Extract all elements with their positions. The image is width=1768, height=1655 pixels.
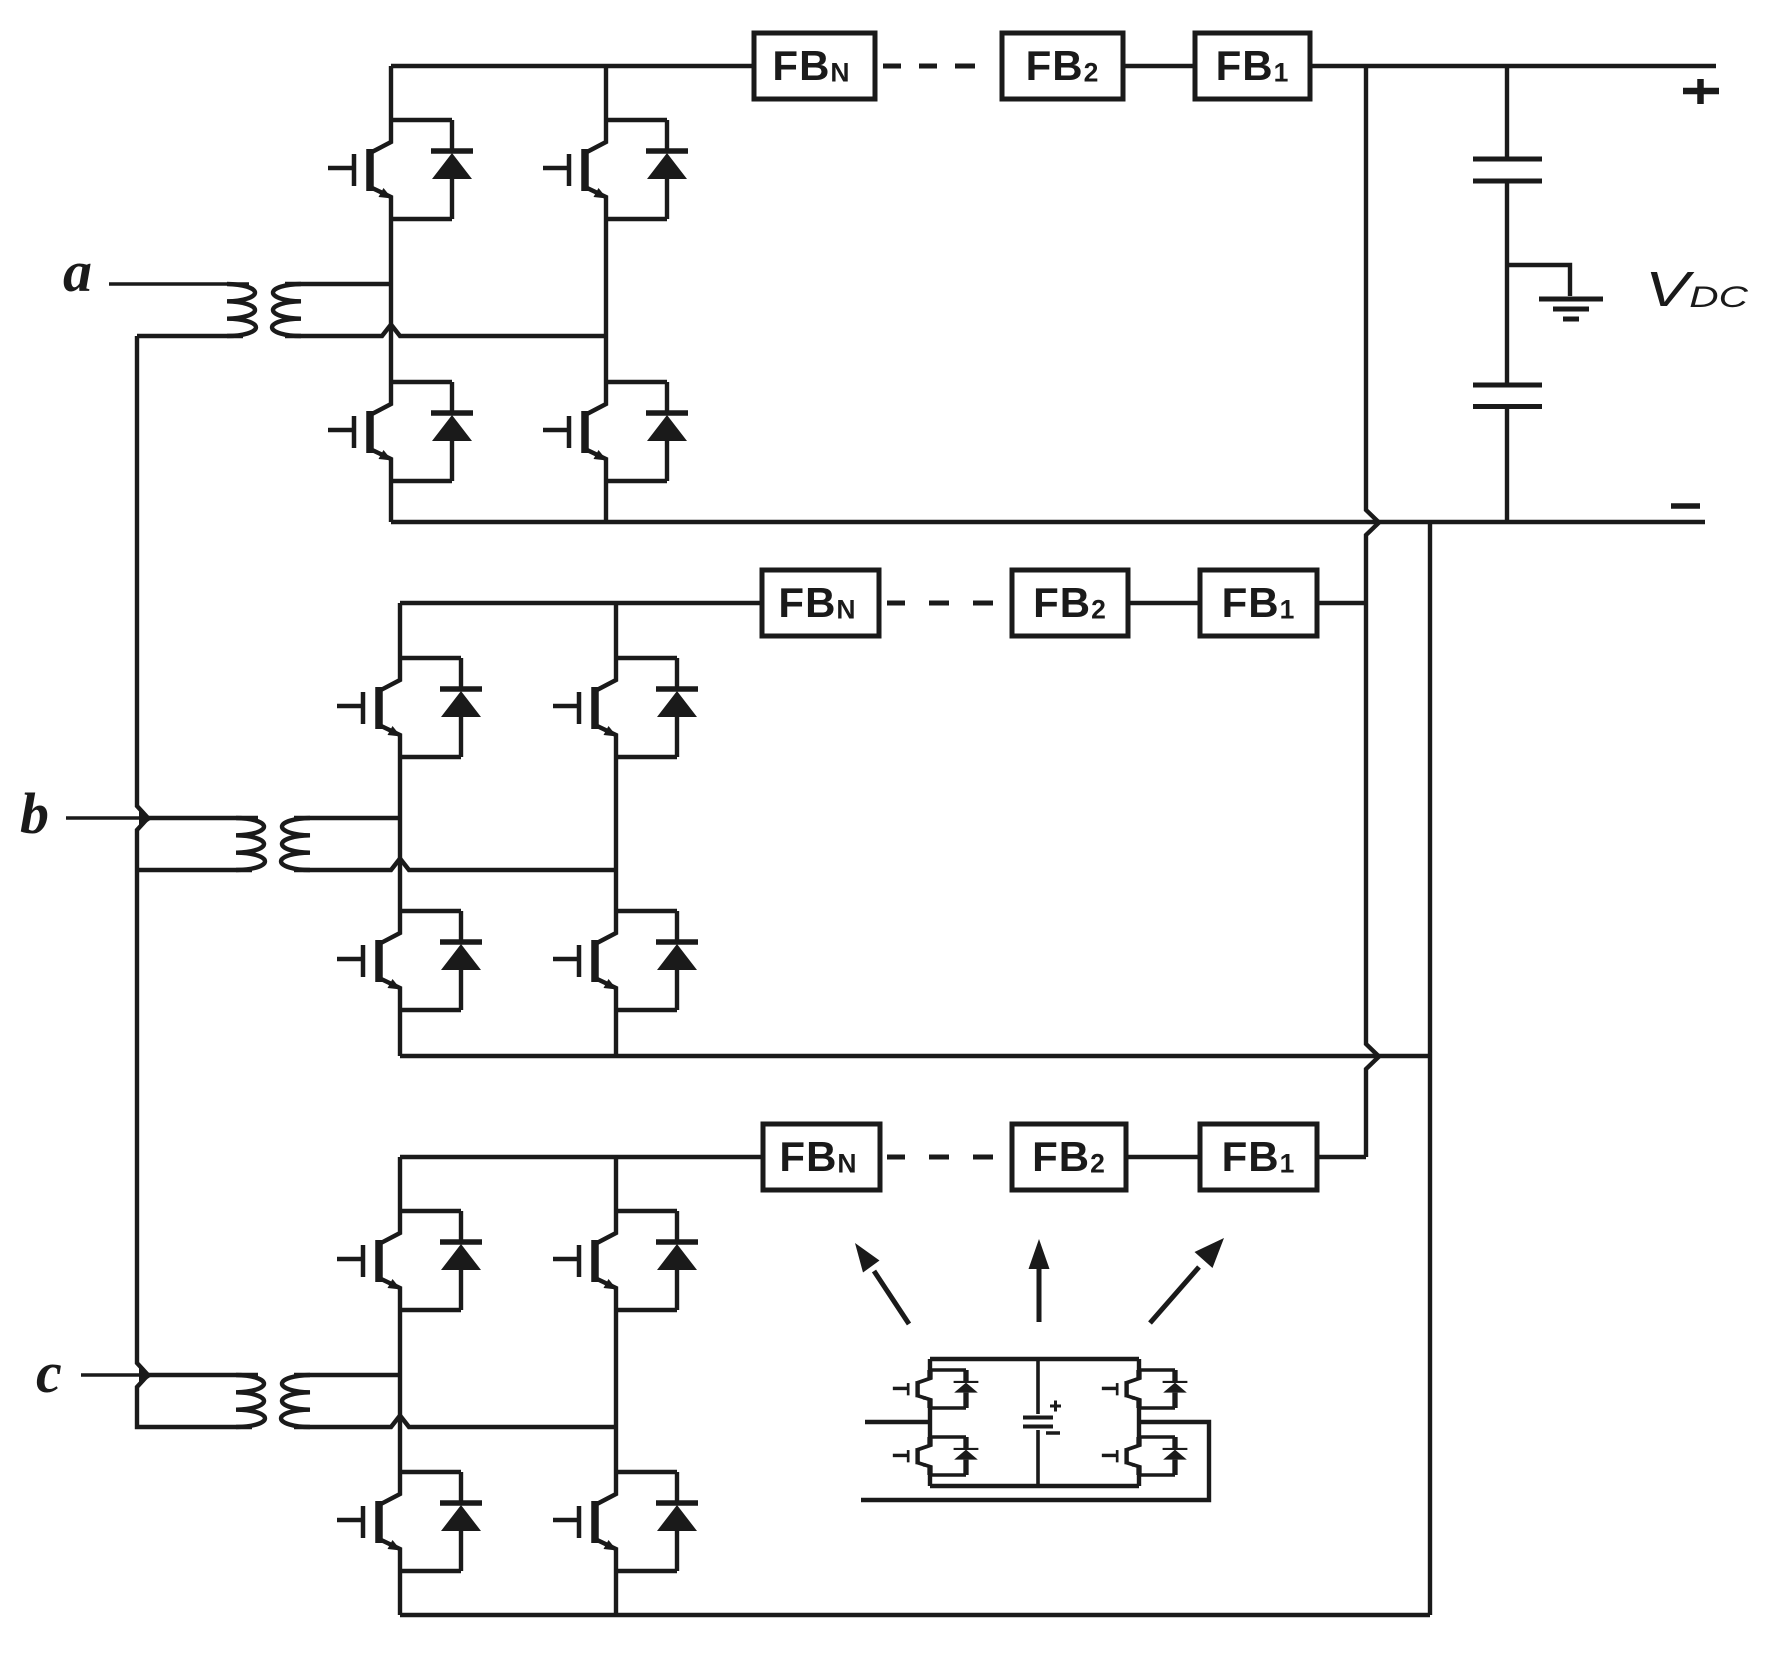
example cell AC terminal left (865, 1420, 930, 1424)
example FB cell bottom rail (930, 1484, 1139, 1488)
transformer Ta primary winding (phase a) (227, 284, 256, 336)
phase c H-bridge top rail (400, 1155, 763, 1159)
string bus vertical (FB1 returns) with hop jogs over negative bus and phase b rail (1366, 66, 1379, 1157)
svg-text:a: a (63, 239, 92, 304)
capacitor C2 (lower DC-link) (1473, 383, 1542, 388)
full-bridge cell block FB1 (phase c) (1200, 1124, 1317, 1190)
transformer Tc secondary winding (phase c) (281, 1375, 310, 1427)
wire Tb primary bottom to neutral bus (137, 868, 252, 872)
phase c H-bridge right leg (614, 1157, 618, 1615)
svg-text:FB1: FB1 (1222, 1133, 1296, 1180)
IGBT S4b with anti-parallel diode (lower-right, phase b) (553, 911, 698, 1010)
wire capacitor C2 to negative bus (1505, 409, 1509, 522)
IGBT S4a with anti-parallel diode (lower-right, phase a) (543, 382, 688, 481)
full-bridge cell block FB2 (phase c) (1012, 1124, 1126, 1190)
example cell capacitor polarity + mark (1050, 1401, 1061, 1412)
wire FB2 to FB1 (phase c) (1126, 1155, 1200, 1159)
svg-text:VDC: VDC (1645, 263, 1748, 317)
transformer Tc primary winding (phase c) (236, 1375, 265, 1427)
example cell capacitor lower plate tick (1046, 1431, 1060, 1435)
full-bridge cell block FB2 (phase b) (1012, 570, 1128, 636)
wire DC midpoint to ground (1507, 265, 1570, 296)
phase b H-bridge bottom rail (400, 1054, 1430, 1058)
IGBT S4c with anti-parallel diode (lower-right, phase c) (553, 1472, 698, 1571)
example cell IGBT Q3 with diode (lower-left) (893, 1437, 979, 1475)
transformer Tb primary winding (phase b) (236, 818, 265, 870)
wire Tb secondary top to phase b H-bridge left leg midpoint (294, 816, 400, 821)
phase c H-bridge left leg (398, 1157, 402, 1615)
example FB cell right leg (1137, 1359, 1141, 1486)
example FB cell top rail (930, 1357, 1139, 1361)
phase a H-bridge left leg (389, 66, 393, 522)
IGBT S1c with anti-parallel diode (upper-left, phase c) (337, 1211, 482, 1310)
return bus vertical (phase b and c bottom rails to negative bus) (1428, 522, 1432, 1615)
wire Ta secondary bottom to right leg midpoint (hop over left leg) (285, 325, 606, 337)
IGBT S2a with anti-parallel diode (upper-right, phase a) (543, 120, 688, 219)
svg-text:FBN: FBN (778, 579, 856, 626)
wire Ta secondary top to phase a H-bridge left leg midpoint (285, 282, 391, 287)
arrow from example cell to FBN (phase c) (874, 1271, 909, 1324)
full-bridge cell block FBN (phase b) (762, 570, 879, 636)
svg-text:FBN: FBN (779, 1133, 857, 1180)
wire FB1 (phase b) to string bus (1317, 601, 1366, 605)
dashed continuation between FBN and FB2 (phase a) (883, 64, 975, 69)
example FB cell left leg (928, 1359, 932, 1486)
wire FB2 to FB1 (phase b) (1128, 601, 1200, 605)
dashed continuation between FBN and FB2 (phase b) (887, 601, 993, 606)
example cell IGBT Q2 with diode (upper-right) (1102, 1370, 1188, 1408)
example cell IGBT Q4 with diode (lower-right) (1102, 1437, 1188, 1475)
IGBT S1b with anti-parallel diode (upper-left, phase b) (337, 658, 482, 757)
example cell DC-link capacitor wire top (1036, 1359, 1040, 1414)
svg-text:FB2: FB2 (1026, 42, 1100, 89)
IGBT S3c with anti-parallel diode (lower-left, phase c) (337, 1472, 482, 1571)
transformer Tb secondary winding (phase b) (281, 818, 310, 870)
IGBT S2c with anti-parallel diode (upper-right, phase c) (553, 1211, 698, 1310)
svg-text:FBN: FBN (772, 42, 850, 89)
svg-text:b: b (20, 781, 49, 846)
negative terminal − (1671, 503, 1700, 509)
full-bridge cell block FB1 (phase b) (1200, 570, 1317, 636)
wire FB2 to FB1 (phase a) (1123, 64, 1195, 68)
phase a H-bridge bottom rail / negative DC bus (391, 520, 1705, 524)
positive DC bus (FB1a to + terminal) (1310, 64, 1716, 68)
positive terminal + (1683, 88, 1719, 95)
svg-text:FB1: FB1 (1216, 42, 1290, 89)
wire Tc secondary bottom to right leg midpoint (hop over left leg) (294, 1416, 616, 1428)
full-bridge cell block FBN (phase c) (763, 1124, 880, 1190)
transformer Ta secondary winding (phase a) (272, 284, 301, 336)
dashed continuation between FBN and FB2 (phase c) (887, 1155, 993, 1160)
capacitor C1 (upper DC-link) (1473, 157, 1542, 162)
IGBT S2b with anti-parallel diode (upper-right, phase b) (553, 658, 698, 757)
neutral bus (left vertical) with hop jogs at b and c crossings (137, 336, 252, 1427)
IGBT S1a with anti-parallel diode (upper-left, phase a) (328, 120, 473, 219)
ground symbol (1539, 297, 1603, 302)
svg-text:FB2: FB2 (1032, 1133, 1106, 1180)
wire Tc secondary top to phase c H-bridge left leg midpoint (294, 1373, 400, 1378)
full-bridge cell block FB2 (phase a) (1002, 33, 1123, 99)
IGBT S3a with anti-parallel diode (lower-left, phase a) (328, 382, 473, 481)
IGBT S3b with anti-parallel diode (lower-left, phase b) (337, 911, 482, 1010)
phase a H-bridge top rail (391, 64, 754, 68)
full-bridge cell block FB1 (phase a) (1195, 33, 1310, 99)
example cell AC terminal right (wrap-around) (861, 1422, 1209, 1500)
wire + bus to capacitor C1 (1505, 66, 1509, 157)
example cell DC-link capacitor C (1023, 1416, 1053, 1420)
full-bridge cell block FBN (phase a) (754, 33, 875, 99)
wire capacitor C1 to capacitor C2 (DC midpoint) (1505, 183, 1509, 383)
phase b H-bridge left leg (398, 603, 402, 1056)
example cell IGBT Q1 with diode (upper-left) (893, 1370, 979, 1408)
phase a H-bridge right leg (604, 66, 608, 522)
arrow from example cell to FB2 (phase c) (1037, 1268, 1042, 1322)
arrow from example cell to FB1 (phase c) (1150, 1267, 1199, 1323)
wire phase c input to transformer Tc (hops neutral bus) (81, 1373, 140, 1376)
wire FB1 (phase c) to string bus (1317, 1155, 1366, 1159)
wire phase b input to transformer Tb (hops neutral bus) (66, 816, 140, 819)
wire Ta primary bottom to neutral bus (137, 334, 243, 338)
wire Tb secondary bottom to right leg midpoint (hop over left leg) (294, 859, 616, 871)
phase c H-bridge bottom rail (400, 1613, 1430, 1617)
wire phase a input to transformer Ta (109, 282, 249, 286)
hop marker at c-line / neutral bus crossing (139, 1367, 153, 1385)
svg-text:c: c (36, 1340, 62, 1405)
phase b H-bridge right leg (614, 603, 618, 1056)
svg-text:FB1: FB1 (1222, 579, 1296, 626)
hop marker at b-line / neutral bus crossing (139, 810, 153, 828)
example cell DC-link capacitor wire bottom (1036, 1430, 1040, 1486)
svg-text:FB2: FB2 (1033, 579, 1107, 626)
phase b H-bridge top rail (400, 601, 762, 605)
